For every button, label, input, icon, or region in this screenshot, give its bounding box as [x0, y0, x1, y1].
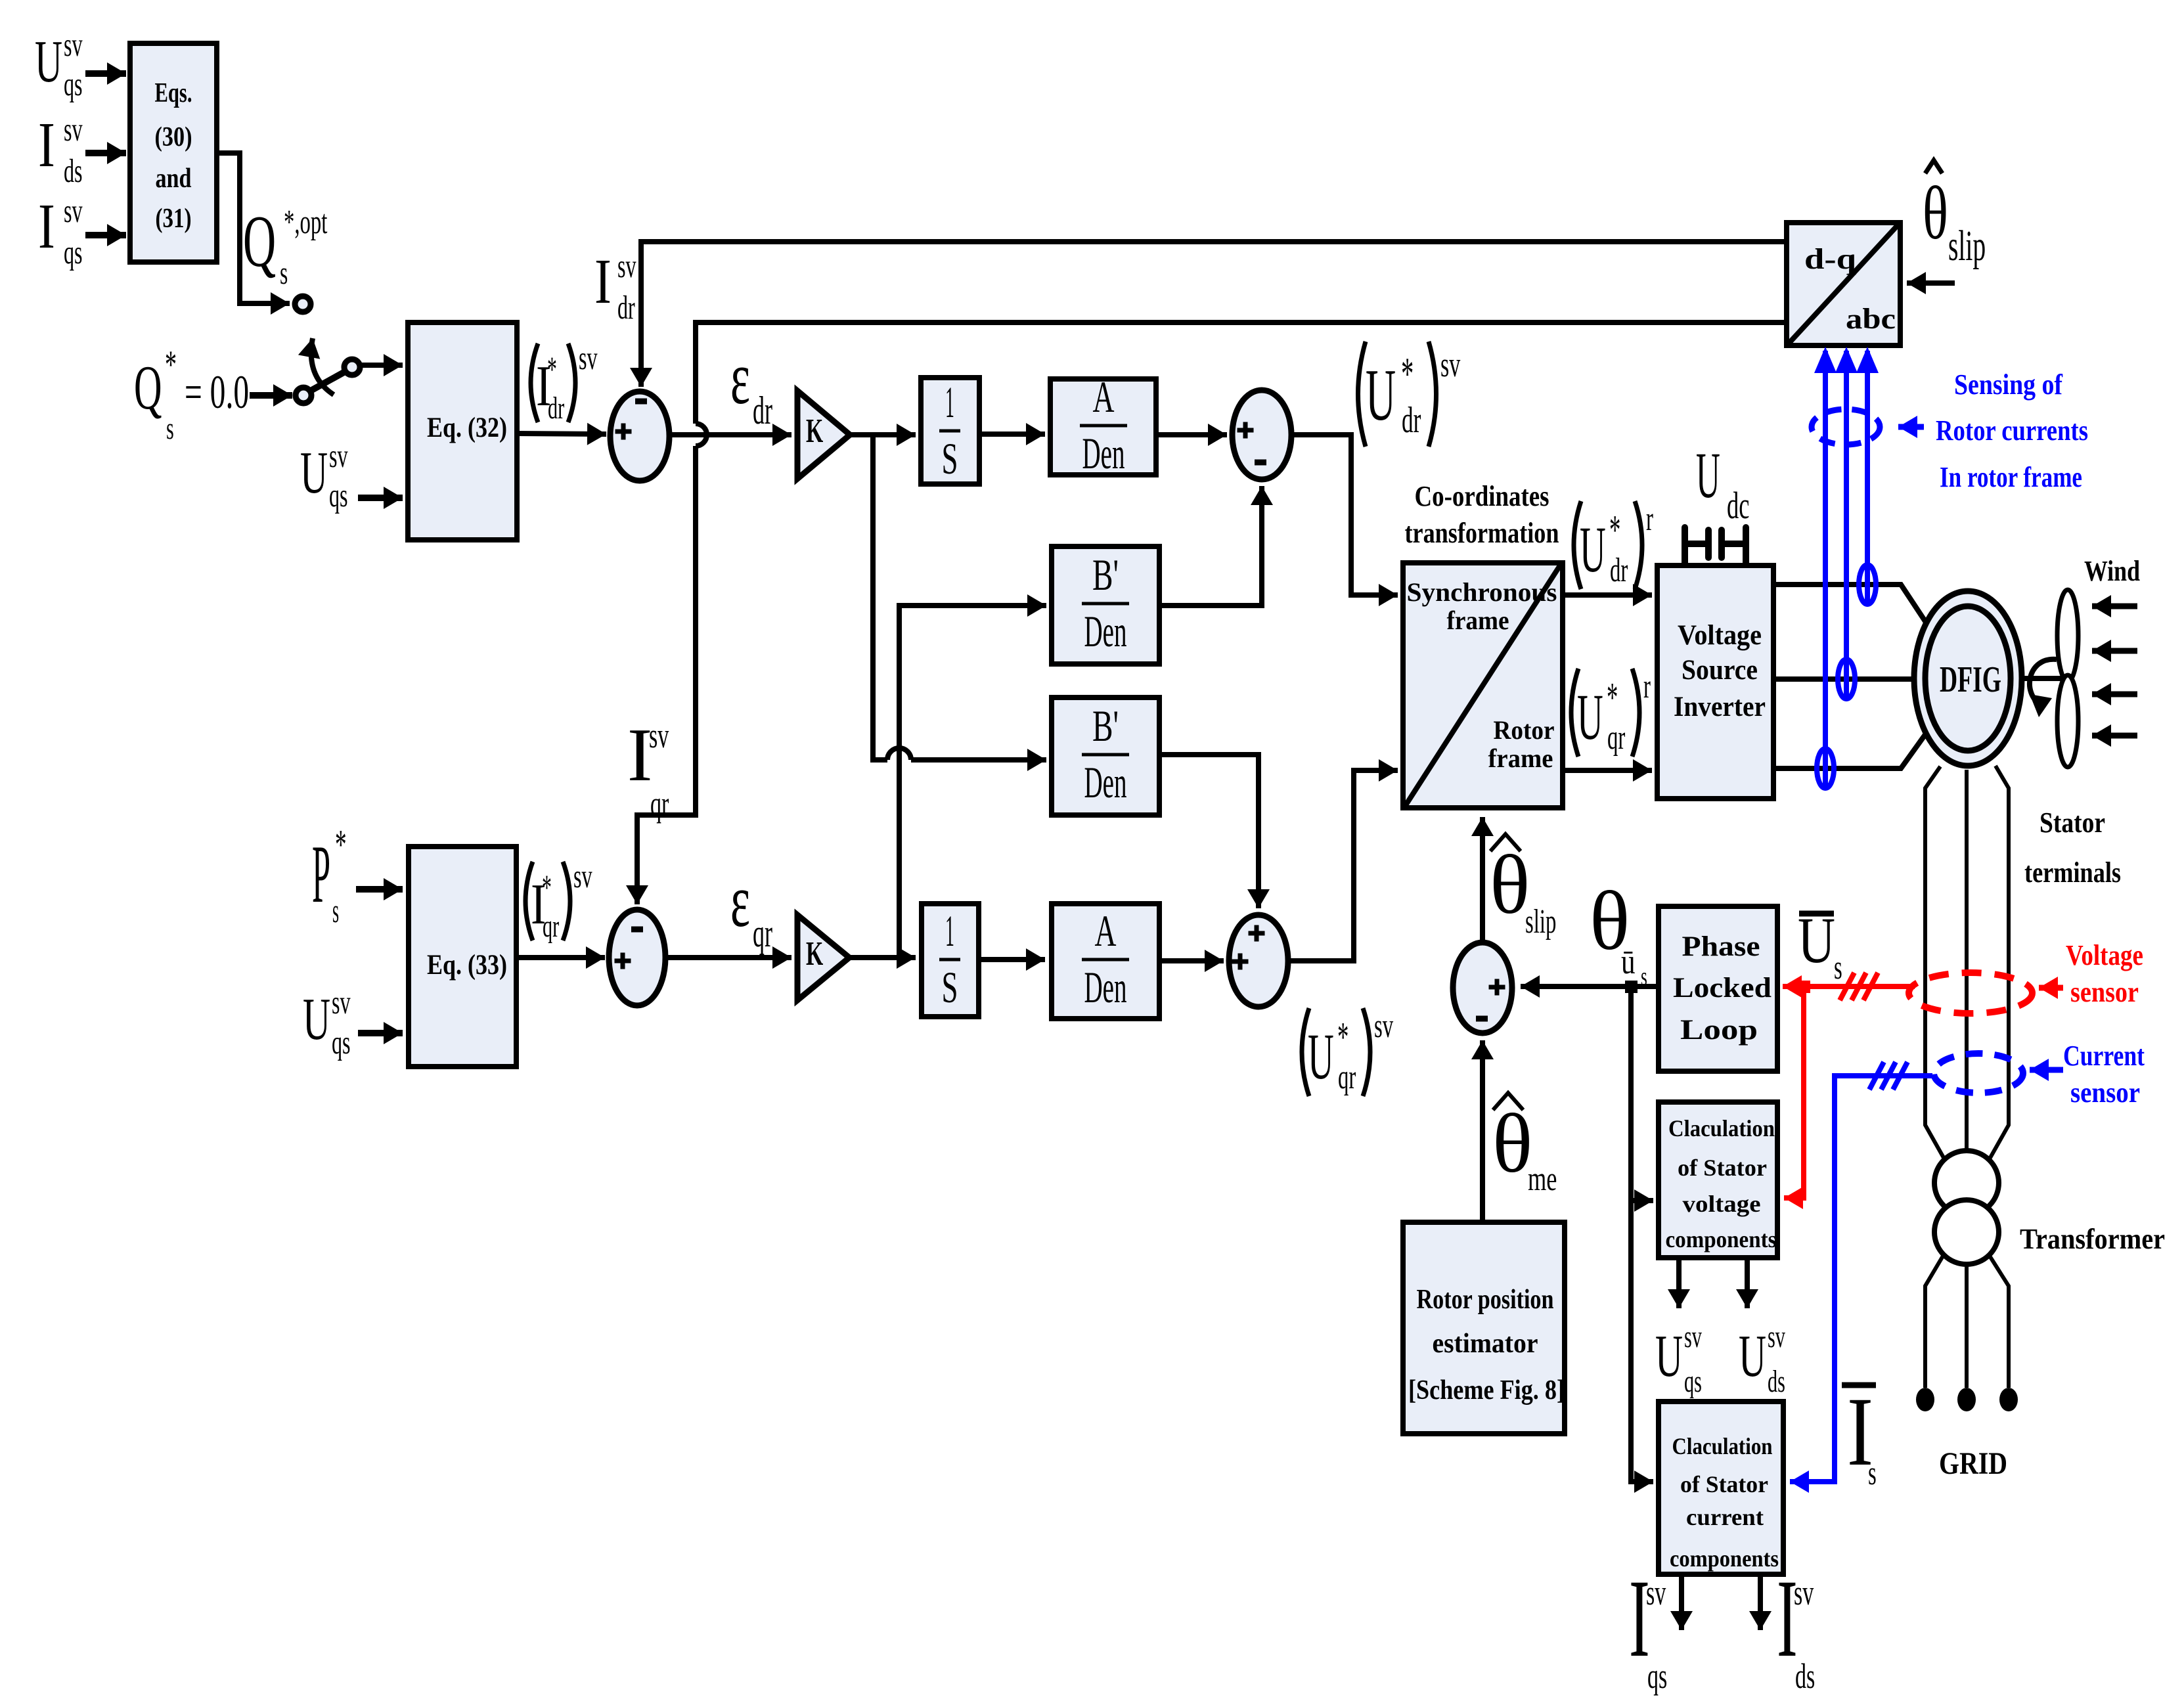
svg-text:U: U — [303, 986, 330, 1052]
svg-text:Den: Den — [1084, 757, 1127, 807]
svg-text:U: U — [1366, 354, 1396, 435]
svg-text:qs: qs — [64, 234, 83, 271]
svg-text:Loop: Loop — [1680, 1015, 1758, 1046]
svg-text:B': B' — [1092, 550, 1119, 600]
svg-text:Q: Q — [243, 201, 276, 282]
svg-text:sv: sv — [1440, 345, 1461, 384]
svg-text:I: I — [594, 246, 612, 317]
svg-text:Stator: Stator — [2039, 807, 2105, 839]
svg-text:θ: θ — [1923, 171, 1948, 255]
svg-text:Eq. (32): Eq. (32) — [427, 412, 507, 443]
svg-text:Source: Source — [1682, 655, 1758, 686]
svg-text:U: U — [1739, 1323, 1766, 1389]
svg-text:sv: sv — [1684, 1319, 1703, 1354]
svg-text:voltage: voltage — [1683, 1191, 1761, 1217]
svg-text:qr: qr — [650, 784, 669, 824]
svg-text:qs: qs — [1647, 1656, 1667, 1696]
svg-text:ε: ε — [730, 336, 750, 420]
svg-text:terminals: terminals — [2024, 856, 2121, 889]
svg-text:r: r — [1646, 500, 1653, 538]
svg-text:*: * — [1401, 349, 1414, 399]
svg-text:dr: dr — [1610, 552, 1628, 589]
svg-text:Phase: Phase — [1682, 931, 1760, 962]
svg-text:U: U — [1308, 1021, 1334, 1093]
svg-text:dc: dc — [1727, 485, 1749, 527]
svg-text:Rotor currents: Rotor currents — [1936, 414, 2088, 447]
svg-text:U: U — [1696, 439, 1720, 512]
svg-text:sv: sv — [64, 193, 83, 230]
svg-text:s: s — [280, 255, 288, 292]
svg-text:sv: sv — [573, 858, 592, 895]
svg-text:S: S — [942, 962, 958, 1012]
svg-text:qs: qs — [329, 477, 348, 514]
svg-text:ds: ds — [64, 153, 83, 190]
svg-text:1: 1 — [945, 377, 954, 427]
svg-text:components: components — [1666, 1226, 1777, 1252]
svg-text:sv: sv — [1794, 1573, 1814, 1612]
svg-text:and: and — [156, 164, 192, 194]
svg-text:s: s — [1641, 962, 1647, 991]
svg-text:P: P — [312, 828, 330, 919]
svg-text:*,opt: *,opt — [284, 204, 327, 241]
svg-text:sv: sv — [329, 438, 348, 475]
svg-text:Rotor: Rotor — [1494, 715, 1555, 745]
svg-text:(30): (30) — [155, 122, 192, 152]
svg-text:dr: dr — [617, 290, 635, 326]
svg-text:frame: frame — [1447, 606, 1509, 635]
svg-text:*: * — [1337, 1014, 1348, 1059]
svg-text:Co-ordinates: Co-ordinates — [1415, 480, 1549, 512]
svg-text:*: * — [335, 822, 347, 868]
svg-text:GRID: GRID — [1939, 1446, 2007, 1481]
svg-text:qs: qs — [332, 1025, 351, 1061]
svg-text:qs: qs — [64, 66, 83, 103]
svg-text:Wind: Wind — [2084, 555, 2140, 587]
svg-text:dr: dr — [753, 389, 772, 433]
svg-text:Inverter: Inverter — [1674, 692, 1766, 722]
svg-text:ds: ds — [1795, 1656, 1815, 1696]
svg-text:Voltage: Voltage — [1678, 620, 1762, 651]
svg-text:qr: qr — [1607, 719, 1626, 757]
svg-text:sv: sv — [617, 248, 636, 285]
svg-text:U: U — [1577, 681, 1603, 753]
svg-text:of Stator: of Stator — [1680, 1471, 1768, 1497]
svg-text:of Stator: of Stator — [1678, 1155, 1767, 1181]
svg-text:qr: qr — [753, 912, 772, 956]
svg-text:sv: sv — [1768, 1319, 1786, 1354]
svg-text:dr: dr — [1402, 400, 1421, 441]
svg-text:Den: Den — [1084, 606, 1127, 656]
svg-text:me: me — [1528, 1160, 1557, 1198]
svg-text:current: current — [1686, 1504, 1764, 1530]
svg-text:s: s — [166, 410, 174, 446]
svg-text:Rotor position: Rotor position — [1417, 1285, 1554, 1315]
svg-text:sv: sv — [64, 27, 83, 64]
svg-text:frame: frame — [1488, 743, 1553, 773]
svg-text:Locked: Locked — [1673, 973, 1772, 1004]
svg-text:*: * — [165, 343, 177, 387]
svg-text:B': B' — [1092, 701, 1119, 751]
svg-text:ds: ds — [1768, 1363, 1785, 1399]
svg-text:sv: sv — [649, 716, 669, 755]
svg-text:Transformer: Transformer — [2020, 1223, 2165, 1255]
svg-text:1: 1 — [945, 906, 954, 956]
svg-text:d-q: d-q — [1804, 243, 1857, 275]
svg-text:ε: ε — [730, 859, 750, 942]
svg-text:Sensing of: Sensing of — [1954, 368, 2063, 401]
svg-text:sv: sv — [332, 984, 351, 1021]
svg-text:K: K — [806, 412, 823, 450]
svg-text:sensor: sensor — [2070, 1076, 2140, 1109]
svg-text:s: s — [1868, 1455, 1877, 1492]
svg-text:Den: Den — [1082, 428, 1125, 478]
svg-text:qr: qr — [543, 908, 559, 944]
svg-text:= 0.0: = 0.0 — [185, 366, 249, 418]
svg-text:s: s — [332, 891, 339, 929]
svg-text:Claculation: Claculation — [1668, 1115, 1775, 1141]
svg-text:S: S — [942, 433, 958, 483]
svg-text:A: A — [1095, 906, 1117, 956]
svg-text:U: U — [35, 28, 62, 95]
svg-text:*: * — [1609, 507, 1620, 552]
svg-text:transformation: transformation — [1405, 517, 1559, 549]
svg-text:Eq. (33): Eq. (33) — [427, 950, 507, 981]
svg-text:In rotor frame: In rotor frame — [1940, 461, 2082, 493]
svg-text:U: U — [1580, 514, 1606, 586]
svg-text:Voltage: Voltage — [2066, 939, 2143, 971]
svg-text:Q: Q — [134, 354, 162, 423]
svg-text:abc: abc — [1846, 303, 1896, 335]
svg-text:DFIG: DFIG — [1940, 659, 2001, 700]
svg-text:*: * — [547, 350, 557, 389]
svg-text:I: I — [38, 110, 55, 180]
svg-text:ū: ū — [1621, 941, 1636, 981]
svg-text:*: * — [1607, 675, 1618, 720]
svg-text:A: A — [1093, 372, 1115, 422]
svg-text:[Scheme Fig. 8]: [Scheme Fig. 8] — [1408, 1375, 1565, 1405]
svg-text:θ: θ — [1492, 1097, 1532, 1190]
svg-text:components: components — [1670, 1545, 1779, 1572]
svg-text:sv: sv — [1374, 1007, 1393, 1045]
svg-text:sv: sv — [1646, 1573, 1666, 1612]
svg-text:estimator: estimator — [1433, 1329, 1538, 1359]
svg-text:dr: dr — [548, 390, 564, 426]
svg-text:U: U — [300, 439, 328, 506]
svg-text:Eqs.: Eqs. — [155, 78, 192, 108]
svg-text:sv: sv — [579, 340, 598, 377]
svg-text:I: I — [38, 191, 55, 261]
svg-text:(31): (31) — [156, 204, 192, 234]
svg-text:Den: Den — [1084, 962, 1127, 1012]
svg-text:slip: slip — [1948, 222, 1986, 270]
svg-text:Synchronous: Synchronous — [1407, 577, 1557, 607]
svg-text:qr: qr — [1338, 1059, 1356, 1096]
svg-text:U: U — [1655, 1323, 1683, 1389]
svg-text:Claculation: Claculation — [1672, 1433, 1773, 1459]
svg-text:K: K — [806, 935, 823, 973]
svg-text:slip: slip — [1525, 903, 1556, 940]
svg-text:Current: Current — [2063, 1040, 2145, 1072]
svg-text:r: r — [1643, 668, 1651, 705]
svg-text:θ: θ — [1490, 838, 1530, 931]
svg-text:*: * — [542, 868, 552, 907]
svg-text:qs: qs — [1684, 1363, 1702, 1399]
svg-text:sv: sv — [64, 112, 83, 148]
svg-text:sensor: sensor — [2070, 976, 2139, 1008]
svg-text:s: s — [1834, 949, 1842, 986]
